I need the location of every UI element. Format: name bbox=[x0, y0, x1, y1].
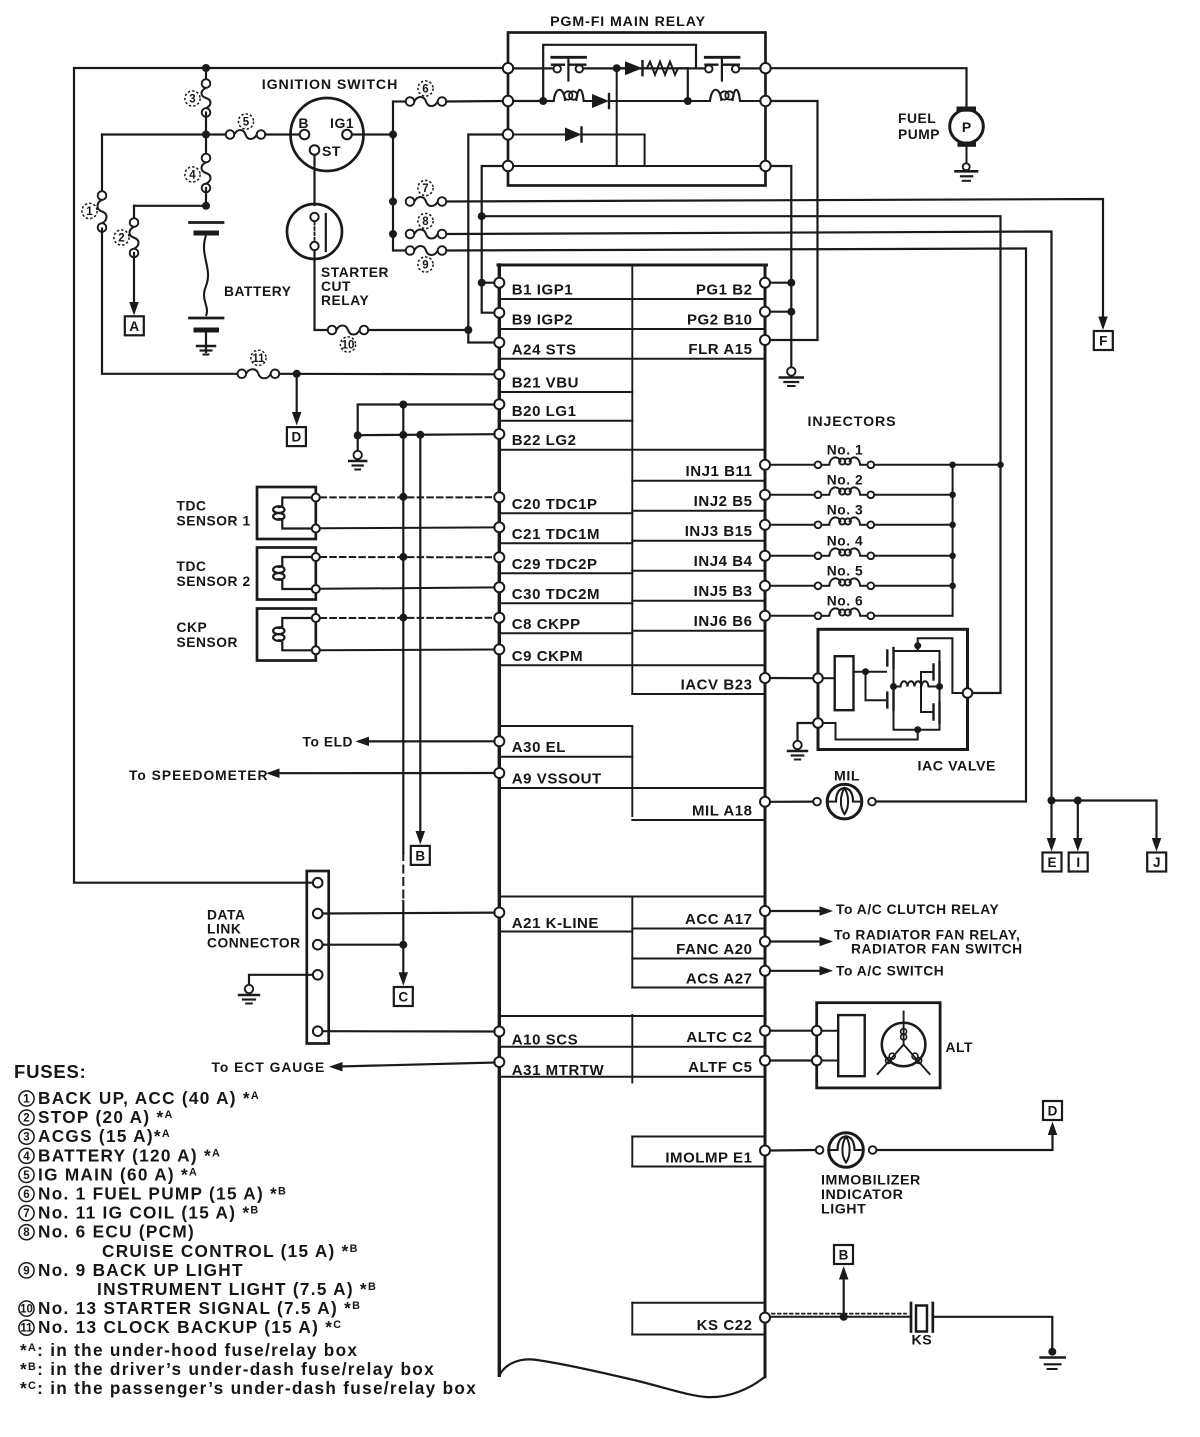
wire CKP signal to C9 CKPM bbox=[321, 649, 495, 652]
svg-text:PG2 B10: PG2 B10 bbox=[687, 312, 753, 329]
relay contact 1 bbox=[554, 65, 561, 72]
ECU pin INJ3 B15 bbox=[760, 520, 770, 530]
svg-text:D: D bbox=[292, 430, 302, 445]
wire to logic ground bbox=[357, 436, 359, 452]
wire IAC Q2 Q4 gate link bbox=[921, 672, 934, 712]
svg-text:CKP: CKP bbox=[177, 620, 208, 635]
TDC sensor 2 coil bbox=[282, 557, 316, 566]
svg-text:2: 2 bbox=[118, 233, 124, 245]
node battery feed junction on top frame bbox=[202, 64, 210, 72]
svg-text:INJ6 B6: INJ6 B6 bbox=[694, 613, 753, 630]
node E junction bbox=[1048, 797, 1056, 805]
svg-text:1: 1 bbox=[86, 206, 93, 218]
svg-text:B: B bbox=[298, 115, 309, 131]
svg-text:SENSOR: SENSOR bbox=[177, 635, 239, 650]
TDC sensor 1 box bbox=[257, 487, 316, 539]
wire arrow J bbox=[1155, 801, 1157, 840]
wire IAC gate feed upper bbox=[854, 671, 887, 673]
wire arrow E bbox=[1050, 801, 1052, 840]
fuse 6 No.1 FUEL PUMP bbox=[406, 97, 415, 106]
ECU pin KS C22 bbox=[760, 1313, 770, 1323]
svg-text:F: F bbox=[1099, 334, 1107, 349]
svg-text:6: 6 bbox=[23, 1189, 29, 1201]
node branch to connector D bbox=[293, 370, 301, 378]
fuse 1 BACK UP ACC bbox=[101, 135, 103, 196]
svg-text:LIGHT: LIGHT bbox=[821, 1202, 866, 1218]
ECU pin PG1 B2 bbox=[760, 278, 770, 288]
svg-text:C29 TDC2P: C29 TDC2P bbox=[512, 556, 598, 573]
transistor Q3 IAC bbox=[886, 693, 888, 708]
ECU pin INJ2 B5 bbox=[760, 490, 770, 500]
ECU pin B1 IGP1 bbox=[494, 278, 504, 288]
wire CKP shield dashed to C8 CKPP bbox=[321, 617, 495, 619]
ECU pin A21 K-LINE bbox=[494, 908, 504, 918]
connector D right bbox=[1043, 1101, 1062, 1120]
ECU pin C29 TDC2P bbox=[494, 552, 504, 562]
ECU pin INJ1 B11 bbox=[760, 460, 770, 470]
svg-text:ACS A27: ACS A27 bbox=[686, 971, 753, 988]
svg-text:ALT: ALT bbox=[946, 1040, 973, 1055]
relay box PGM-FI main relay bbox=[508, 33, 766, 186]
coil L2 relay bbox=[688, 100, 710, 102]
DLC pins bbox=[313, 878, 323, 888]
svg-text:PG1 B2: PG1 B2 bbox=[696, 282, 753, 299]
coil L1 relay bbox=[554, 90, 566, 101]
svg-text:4: 4 bbox=[23, 1151, 30, 1163]
IAC valve inner coil rect bbox=[835, 656, 854, 710]
node IAC motor left bbox=[890, 683, 897, 690]
svg-text:4: 4 bbox=[189, 170, 196, 182]
wire IAC gate feed lower bbox=[866, 672, 887, 701]
fuse list item No. 9 BACK UP LIGHT bbox=[19, 1263, 34, 1278]
node I junction bbox=[1074, 797, 1082, 805]
svg-text:3: 3 bbox=[189, 94, 195, 106]
ECU row lines left half bbox=[499, 391, 632, 393]
svg-text:No. 6 ECU (PCM): No. 6 ECU (PCM) bbox=[38, 1222, 195, 1242]
ECU pin C30 TDC2M bbox=[494, 582, 504, 592]
wire top frame from left frame to main relay pin bbox=[74, 67, 505, 69]
wire injector common rail bbox=[952, 465, 954, 616]
wire IAC ground branch bbox=[798, 723, 814, 742]
wire IG1 to junction bbox=[352, 133, 393, 135]
wire arrow to connector C bbox=[402, 945, 404, 973]
wire to connectors I and J bbox=[1052, 799, 1157, 801]
wire arrow to connector B lower bbox=[843, 1279, 845, 1317]
node IGP feed junction bbox=[478, 212, 486, 220]
connector E bbox=[1043, 853, 1062, 872]
svg-text:ST: ST bbox=[322, 143, 341, 159]
svg-text:TDC: TDC bbox=[177, 559, 207, 574]
CKP sensor coil bbox=[282, 618, 316, 627]
fuse list item STOP (20 A) bbox=[19, 1110, 34, 1125]
svg-text:A10 SCS: A10 SCS bbox=[512, 1032, 578, 1049]
svg-text:E: E bbox=[1047, 855, 1056, 870]
ECU pin B20 LG1 bbox=[494, 399, 504, 409]
svg-text:No. 13 CLOCK BACKUP (15 A) *C: No. 13 CLOCK BACKUP (15 A) *C bbox=[38, 1317, 342, 1337]
wire DLC pin3 to shield node bbox=[323, 944, 404, 946]
node STS junction bbox=[464, 326, 472, 334]
TDC sensor 2 pins bbox=[312, 553, 320, 561]
svg-text:1: 1 bbox=[23, 1094, 30, 1106]
svg-text:5: 5 bbox=[23, 1170, 30, 1182]
node KS junction bbox=[840, 1313, 848, 1321]
connector B lower bbox=[834, 1245, 853, 1264]
svg-text:9: 9 bbox=[23, 1265, 29, 1277]
svg-text:10: 10 bbox=[20, 1304, 33, 1316]
CKP sensor pins bbox=[312, 614, 320, 622]
wire KS C22 solid bbox=[771, 1316, 910, 1318]
ECU pin C8 CKPP bbox=[494, 613, 504, 623]
node fuse 7 junction bbox=[389, 198, 397, 206]
node IAC bottom rail bbox=[914, 726, 921, 733]
svg-text:RADIATOR FAN SWITCH: RADIATOR FAN SWITCH bbox=[851, 942, 1023, 957]
node injector rail junction bbox=[949, 522, 956, 529]
wire IACV B23 to IAC valve bbox=[771, 677, 814, 679]
fuse 3 ACGS bbox=[202, 79, 211, 88]
svg-text:C9 CKPM: C9 CKPM bbox=[512, 648, 583, 665]
ECU pin C9 CKPM bbox=[494, 644, 504, 654]
svg-text:No. 9 BACK UP LIGHT: No. 9 BACK UP LIGHT bbox=[38, 1260, 244, 1280]
svg-text:D: D bbox=[1048, 1104, 1058, 1119]
wire A31 MTRTW to ECT gauge bbox=[340, 1063, 495, 1067]
svg-text:To A/C CLUTCH RELAY: To A/C CLUTCH RELAY bbox=[836, 902, 999, 917]
fuse 5 IG MAIN bbox=[226, 130, 235, 139]
svg-text:IG MAIN (60 A) *A: IG MAIN (60 A) *A bbox=[38, 1164, 198, 1184]
svg-text:LINK: LINK bbox=[207, 922, 241, 937]
wire A9 VSSOUT to speedometer bbox=[277, 772, 495, 774]
node IAC motor right bbox=[936, 683, 943, 690]
svg-text:To RADIATOR FAN RELAY,: To RADIATOR FAN RELAY, bbox=[834, 928, 1020, 943]
lamp immobilizer indicator bbox=[816, 1146, 824, 1154]
connector I bbox=[1069, 853, 1088, 872]
wire resistor to coil2 node bbox=[687, 68, 689, 101]
wire rail to fuse 5 and ignition switch B bbox=[102, 133, 226, 135]
node battery top junction bbox=[202, 202, 210, 210]
wire fuse 6 to relay pin bbox=[446, 100, 503, 103]
ECU pin FLR A15 bbox=[760, 335, 770, 345]
svg-text:TDC: TDC bbox=[177, 499, 207, 514]
data link connector box bbox=[307, 871, 329, 1044]
wire relay ECU-feed to B1 B9 bbox=[482, 166, 503, 313]
ECU row lines full width bbox=[499, 298, 765, 300]
connector A bbox=[125, 316, 144, 335]
svg-text:To ELD: To ELD bbox=[303, 734, 354, 749]
ECU pin ALTF C5 bbox=[760, 1056, 770, 1066]
relay pin ECU-feed left bbox=[503, 161, 513, 171]
wire relay top contact rail bbox=[513, 67, 553, 69]
ECU pin FANC A20 bbox=[760, 937, 770, 947]
svg-text:KS: KS bbox=[912, 1333, 933, 1349]
svg-text:INJ4 B4: INJ4 B4 bbox=[694, 553, 753, 570]
diode D1 relay bbox=[617, 67, 625, 69]
node fuse 8 junction bbox=[389, 230, 397, 238]
wire branch to fuse 2 bbox=[134, 205, 206, 207]
node PG2 junction bbox=[787, 308, 795, 316]
wire battery column upper bbox=[205, 68, 207, 84]
ECU pin IMOLMP E1 bbox=[760, 1146, 770, 1156]
node injector rail junction bbox=[949, 462, 956, 469]
svg-text:FLR A15: FLR A15 bbox=[688, 341, 752, 358]
fuse 4 BATTERY bbox=[205, 135, 207, 159]
IAC valve pin left upper bbox=[813, 673, 823, 683]
wire fuse 11 to ECU pin B21 VBU bbox=[279, 373, 494, 376]
fuse list item BATTERY (120 A) bbox=[19, 1148, 34, 1163]
svg-text:*B: in the driver’s under-dash: *B: in the driver’s under-dash fuse/rela… bbox=[20, 1359, 435, 1379]
svg-text:BATTERY (120 A) *A: BATTERY (120 A) *A bbox=[38, 1145, 221, 1165]
ECU pin A30 EL bbox=[494, 736, 504, 746]
IAC valve box bbox=[818, 629, 968, 749]
transistor Q4 IAC bbox=[932, 705, 934, 720]
svg-text:ACGS (15 A)*A: ACGS (15 A)*A bbox=[38, 1126, 171, 1146]
relay contact 2 bbox=[705, 65, 712, 72]
connector D bbox=[287, 427, 306, 446]
svg-text:BATTERY: BATTERY bbox=[224, 284, 291, 299]
svg-text:To A/C SWITCH: To A/C SWITCH bbox=[836, 964, 944, 979]
ECU pin ALTC C2 bbox=[760, 1026, 770, 1036]
coil IAC motor winding bbox=[894, 681, 940, 686]
ECU pin A31 MTRTW bbox=[494, 1057, 504, 1067]
svg-text:I: I bbox=[1076, 855, 1080, 870]
svg-text:B21 VBU: B21 VBU bbox=[512, 375, 579, 392]
ECU pin PG2 B10 bbox=[760, 307, 770, 317]
ECU connector box bbox=[498, 265, 501, 1375]
svg-text:CRUISE CONTROL (15 A) *B: CRUISE CONTROL (15 A) *B bbox=[102, 1241, 359, 1261]
svg-text:IGNITION SWITCH: IGNITION SWITCH bbox=[262, 77, 398, 93]
svg-text:B: B bbox=[415, 848, 425, 863]
node relay contact output bbox=[613, 64, 621, 72]
ECU pin C20 TDC1P bbox=[494, 492, 504, 502]
svg-text:P: P bbox=[962, 119, 971, 135]
svg-text:INJ3 B15: INJ3 B15 bbox=[685, 523, 753, 540]
ECU torn bottom edge bbox=[499, 1359, 765, 1397]
svg-text:No. 5: No. 5 bbox=[827, 563, 863, 578]
node shield TDC2 bbox=[399, 553, 407, 561]
wire DLC pin5 to A10 SCS bbox=[323, 1030, 495, 1033]
ALT box bbox=[817, 1003, 940, 1088]
wire TDC2 shield dashed to C29 TDC2P bbox=[321, 556, 495, 558]
svg-text:6: 6 bbox=[422, 84, 428, 96]
svg-text:8: 8 bbox=[23, 1227, 30, 1239]
wire IAC pin to coil bbox=[823, 677, 835, 679]
svg-text:ALTC C2: ALTC C2 bbox=[686, 1029, 752, 1046]
svg-text:FUSES:: FUSES: bbox=[14, 1061, 87, 1082]
node KS ground bbox=[1048, 1348, 1056, 1356]
svg-text:FANC A20: FANC A20 bbox=[676, 941, 752, 958]
node IAC top rail bbox=[914, 642, 921, 649]
svg-text:B: B bbox=[839, 1248, 849, 1263]
wire STS node up to relay pin3 and down to A24 STS bbox=[468, 135, 503, 343]
svg-text:*C: in the passenger’s under-d: *C: in the passenger’s under-dash fuse/r… bbox=[20, 1378, 477, 1398]
svg-text:RELAY: RELAY bbox=[321, 293, 369, 308]
relay pin B+ left bbox=[503, 63, 513, 73]
ECU pin A24 STS bbox=[494, 338, 504, 348]
wire MIL A18 to lamp bbox=[771, 800, 814, 802]
svg-text:INJ1 B11: INJ1 B11 bbox=[686, 463, 753, 480]
ground battery bbox=[197, 345, 215, 347]
ECU pin ACC A17 bbox=[760, 906, 770, 916]
ECU pin ACS A27 bbox=[760, 966, 770, 976]
wire DLC pin4 to ground bbox=[249, 975, 313, 986]
fuse 8 No.6 ECU bbox=[406, 230, 415, 239]
svg-text:No. 6: No. 6 bbox=[827, 593, 863, 608]
node DLC ground junction bbox=[399, 941, 407, 949]
svg-text:INJECTORS: INJECTORS bbox=[808, 414, 897, 430]
svg-text:CUT: CUT bbox=[321, 279, 351, 294]
svg-text:C21 TDC1M: C21 TDC1M bbox=[512, 526, 600, 543]
svg-text:11: 11 bbox=[20, 1323, 33, 1335]
node LG1 junction bbox=[399, 401, 407, 409]
svg-text:A24 STS: A24 STS bbox=[512, 342, 577, 359]
transistor Q1 IAC bbox=[886, 651, 888, 666]
node IG1 junction bbox=[389, 131, 397, 139]
node shield TDC1 bbox=[399, 493, 407, 501]
svg-text:A: A bbox=[129, 319, 139, 334]
svg-text:INJ5 B3: INJ5 B3 bbox=[694, 583, 753, 600]
wire to B1 IGP1 bbox=[482, 282, 495, 284]
fuel pump bbox=[771, 68, 967, 106]
svg-text:B1 IGP1: B1 IGP1 bbox=[512, 282, 573, 299]
svg-text:IACV B23: IACV B23 bbox=[681, 677, 753, 694]
relay pin fuel-pump right bbox=[760, 63, 770, 73]
node ignition feed rail junction bbox=[202, 131, 210, 139]
svg-text:IMOLMP E1: IMOLMP E1 bbox=[665, 1150, 752, 1167]
lamp MIL bbox=[813, 798, 821, 806]
ignition switch bbox=[291, 98, 364, 171]
wire IAC Q2-Q4 link bbox=[939, 682, 941, 703]
svg-text:PGM-FI MAIN RELAY: PGM-FI MAIN RELAY bbox=[550, 14, 706, 30]
svg-text:8: 8 bbox=[422, 216, 429, 228]
wire relay inner box bbox=[543, 45, 696, 101]
wire ALTF C5 to ALT bbox=[771, 1059, 813, 1061]
svg-text:To SPEEDOMETER: To SPEEDOMETER bbox=[129, 768, 268, 783]
ECU pin B9 IGP2 bbox=[494, 308, 504, 318]
node injector rail junction bbox=[949, 583, 956, 590]
svg-text:*A: in the under-hood fuse/rel: *A: in the under-hood fuse/relay box bbox=[20, 1340, 358, 1360]
ALT regulator rect bbox=[838, 1015, 865, 1076]
svg-text:3: 3 bbox=[23, 1132, 29, 1144]
svg-text:C20 TDC1P: C20 TDC1P bbox=[512, 496, 598, 513]
wire ACS A27 arrow bbox=[771, 970, 820, 972]
TDC sensor 1 coil bbox=[282, 498, 316, 507]
svg-text:IG1: IG1 bbox=[330, 115, 354, 131]
ground DLC bbox=[245, 985, 253, 993]
relay pin fuse6 left bbox=[503, 96, 513, 106]
IAC valve pin right bbox=[963, 688, 973, 698]
node injector rail junction bbox=[949, 553, 956, 560]
wire KS C22 dotted shield bbox=[772, 1313, 906, 1315]
battery bbox=[190, 221, 224, 224]
svg-text:SENSOR 1: SENSOR 1 bbox=[177, 514, 251, 529]
wire TDC2 signal to C30 TDC2M bbox=[321, 587, 495, 588]
node relay coil2 feed bbox=[684, 97, 692, 105]
diode D3 relay IG1 branch bbox=[513, 134, 565, 136]
wire PG1 to node bbox=[771, 282, 792, 284]
resistor R1 relay bbox=[643, 62, 688, 75]
wire relay ground branch via PG1 PG2 bbox=[771, 166, 792, 368]
wire TDC1 shield dashed to C20 TDC1P bbox=[321, 496, 495, 498]
svg-text:No. 4: No. 4 bbox=[827, 533, 863, 548]
svg-text:INSTRUMENT LIGHT (7.5 A) *B: INSTRUMENT LIGHT (7.5 A) *B bbox=[97, 1279, 377, 1299]
node LG2 junction A bbox=[354, 431, 362, 439]
svg-text:B20 LG1: B20 LG1 bbox=[512, 403, 577, 420]
svg-text:2: 2 bbox=[23, 1113, 29, 1125]
svg-text:BACK UP, ACC (40 A) *A: BACK UP, ACC (40 A) *A bbox=[38, 1088, 260, 1108]
wire IGP feed line to injector rail bbox=[482, 216, 1001, 465]
wire ACC A17 arrow bbox=[771, 910, 820, 912]
fuse list item IG MAIN (60 A) bbox=[19, 1167, 34, 1182]
svg-text:SENSOR 2: SENSOR 2 bbox=[177, 574, 251, 589]
ALT pins bbox=[812, 1026, 822, 1036]
svg-text:B22 LG2: B22 LG2 bbox=[512, 432, 577, 449]
node shield CKP bbox=[399, 614, 407, 622]
wire left frame vertical down to data link connector bbox=[74, 68, 312, 883]
wire B22 LG2 ground branch bbox=[358, 434, 495, 435]
connector B bbox=[411, 846, 430, 865]
wire IAC Q1-Q3 source link bbox=[893, 668, 895, 690]
ECU pin IACV B23 bbox=[760, 673, 770, 683]
wire injector feed down to IAC valve bbox=[973, 465, 1001, 693]
wire DLC pin2 to A21 K-LINE bbox=[323, 911, 495, 914]
CKP sensor box bbox=[257, 609, 316, 661]
ECU pin MIL A18 bbox=[760, 797, 770, 807]
wire B22 ground to connector B bbox=[419, 435, 421, 832]
ECU pin INJ4 B4 bbox=[760, 551, 770, 561]
fuse list item No. 13 CLOCK BACKUP (15 A) bbox=[19, 1320, 34, 1335]
relay pin FLR right bbox=[760, 96, 770, 106]
wire relay pin2 to coil1 bbox=[513, 100, 543, 102]
svg-text:CONNECTOR: CONNECTOR bbox=[207, 936, 301, 951]
svg-text:7: 7 bbox=[422, 183, 428, 195]
fuse list item BACK UP, ACC (40 A) bbox=[19, 1091, 34, 1106]
svg-text:No. 3: No. 3 bbox=[827, 502, 863, 517]
fuse list item No. 11 IG COIL (15 A) bbox=[19, 1206, 34, 1221]
connector F bbox=[1094, 331, 1113, 350]
svg-text:C30 TDC2M: C30 TDC2M bbox=[512, 586, 600, 603]
wire fuse 7 line to connector F bbox=[446, 199, 1103, 317]
svg-text:MIL A18: MIL A18 bbox=[692, 803, 753, 820]
ground fuel pump bbox=[963, 163, 970, 170]
svg-text:B9 IGP2: B9 IGP2 bbox=[512, 312, 573, 329]
svg-text:No. 2: No. 2 bbox=[827, 472, 863, 487]
wire relay pin FLR loop bbox=[771, 101, 818, 340]
ECU pin C21 TDC1M bbox=[494, 522, 504, 532]
wire IAC bottom rail bbox=[894, 710, 940, 730]
svg-text:9: 9 bbox=[422, 260, 428, 272]
svg-text:To ECT GAUGE: To ECT GAUGE bbox=[212, 1060, 326, 1075]
wire fuse 2 down to connector A bbox=[133, 253, 135, 303]
ECU row lines right half bbox=[632, 480, 765, 482]
wire ALTC C2 to ALT bbox=[771, 1030, 813, 1032]
relay pin IG1 left bbox=[503, 129, 513, 139]
fuse list item No. 1 FUEL PUMP (15 A) bbox=[19, 1186, 34, 1201]
wire FANC A20 arrow bbox=[771, 940, 820, 942]
svg-text:A30 EL: A30 EL bbox=[512, 739, 566, 756]
starter cut relay bbox=[287, 204, 342, 259]
wire B20 LG1 ground branch bbox=[358, 405, 495, 436]
wire IAC pin2 to bottom rail bbox=[823, 723, 918, 740]
wire IAC top rail bbox=[894, 638, 963, 693]
wire A30 EL to ELD bbox=[366, 740, 495, 742]
wire arrow I bbox=[1077, 801, 1079, 840]
ground ECU power grounds bbox=[787, 367, 795, 375]
ground logic ground LG bbox=[354, 451, 362, 459]
svg-text:No. 11 IG COIL (15 A) *B: No. 11 IG COIL (15 A) *B bbox=[38, 1203, 259, 1223]
wire fuse column from fuse 6 down to fuse 9 bbox=[393, 102, 406, 251]
svg-text:A21 K-LINE: A21 K-LINE bbox=[512, 915, 599, 932]
wire fuse 9 line to MIL bbox=[446, 249, 1026, 802]
wire shield drain line down to DLC bbox=[402, 405, 404, 854]
node injector rail junction bbox=[949, 492, 956, 499]
